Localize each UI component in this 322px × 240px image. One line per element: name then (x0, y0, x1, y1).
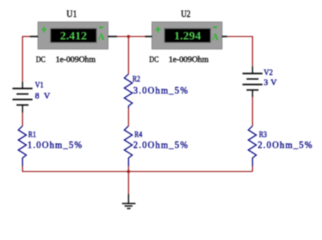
svg-text:3 V: 3 V (264, 77, 278, 87)
resistor R1 (18, 126, 26, 166)
svg-text:3.0Ohm_5%: 3.0Ohm_5% (133, 86, 188, 96)
svg-text:2.0Ohm_5%: 2.0Ohm_5% (258, 140, 313, 150)
wire bottom junction to ground stem (128, 172, 130, 195)
ammeter U1 (30, 22, 117, 49)
node junction dot bottom (rail to ground) (127, 170, 130, 173)
wire R4 bottom to bottom rail (128, 166, 130, 172)
svg-text:V1: V1 (35, 79, 44, 89)
wire U2 right pin to V2 top corner (227, 37, 253, 67)
wire V1 bottom to R1 top (22, 112, 24, 126)
svg-text:1.294: 1.294 (174, 28, 201, 42)
node junction dot top (meter rail to R2) (127, 35, 130, 38)
svg-text:V2: V2 (264, 67, 273, 77)
svg-text:U2: U2 (181, 10, 191, 20)
resistor R2 (124, 74, 132, 108)
wire V2 bottom to R3 top (252, 97, 254, 126)
wire R2 bottom to R4 top (128, 108, 130, 126)
wire bottom rail (22, 171, 253, 173)
battery V2 (243, 67, 263, 98)
wire R3 bottom to bottom rail (252, 166, 254, 172)
svg-text:A: A (212, 33, 219, 43)
svg-text:1e-009Ohm: 1e-009Ohm (56, 54, 96, 64)
wire R1 bottom to bottom rail (22, 166, 24, 172)
svg-text:A: A (98, 33, 105, 43)
svg-text:R1: R1 (28, 129, 36, 139)
svg-text:R2: R2 (132, 74, 140, 84)
resistor R3 (248, 126, 256, 166)
svg-text:DC: DC (149, 55, 159, 64)
wire top-left horizontal from left column to U1 left pin (22, 36, 30, 38)
wire U1 right pin to U2 left pin (117, 36, 145, 38)
svg-text:1.0Ohm_5%: 1.0Ohm_5% (28, 140, 83, 150)
svg-text:U1: U1 (67, 10, 78, 20)
wire junction down to R2 top (128, 37, 130, 75)
svg-text:1e-009Ohm: 1e-009Ohm (169, 54, 209, 64)
svg-text:DC: DC (36, 55, 46, 64)
svg-text:2.0Ohm_5%: 2.0Ohm_5% (133, 140, 188, 150)
wire left vertical from top rail down to V1 (22, 37, 24, 83)
svg-text:8 V: 8 V (35, 91, 51, 101)
resistor R4 (124, 126, 132, 166)
svg-text:R3: R3 (259, 129, 267, 139)
svg-text:2.412: 2.412 (60, 28, 87, 42)
battery V1 (13, 82, 33, 113)
ground (122, 194, 136, 209)
ammeter U2 (145, 22, 227, 49)
svg-text:R4: R4 (134, 129, 142, 139)
